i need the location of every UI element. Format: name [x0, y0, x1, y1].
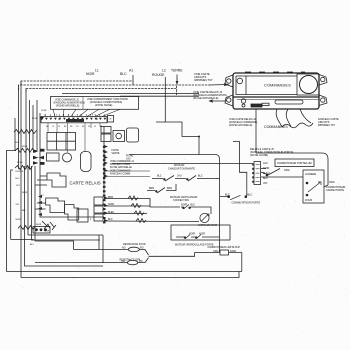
svg-text:B1: B1	[100, 126, 102, 128]
svg-text:(FICHE NATURELLE): (FICHE NATURELLE)	[193, 96, 218, 100]
svg-text:FAISCEAU COMM: FAISCEAU COMM	[110, 173, 130, 176]
svg-text:NOIR: NOIR	[108, 203, 114, 206]
svg-text:CARTE RELAIS: CARTE RELAIS	[70, 181, 101, 186]
svg-text:C3: C3	[76, 126, 78, 128]
svg-text:CADRE PORTE: CADRE PORTE	[326, 189, 344, 192]
svg-text:NOIR: NOIR	[22, 192, 28, 194]
svg-text:NOIR: NOIR	[199, 233, 205, 236]
svg-text:VIO: VIO	[263, 182, 267, 185]
svg-text:(FICHE NATURELLE): (FICHE NATURELLE)	[229, 124, 253, 127]
svg-text:COMMANDES: COMMANDES	[264, 84, 291, 88]
svg-text:BLC: BLC	[16, 178, 21, 180]
svg-text:NOIR: NOIR	[17, 162, 23, 164]
svg-text:VIO: VIO	[121, 260, 125, 263]
svg-text:IMPRIMES TST: IMPRIMES TST	[194, 78, 213, 82]
svg-text:JAU: JAU	[177, 175, 182, 178]
svg-text:NOIR: NOIR	[263, 167, 269, 170]
svg-text:L1: L1	[58, 126, 60, 128]
svg-text:BRN: BRN	[149, 187, 154, 190]
svg-text:VERTE: VERTE	[112, 152, 120, 155]
svg-text:BLC: BLC	[108, 218, 113, 221]
svg-text:BLC: BLC	[30, 244, 35, 246]
svg-text:NO: NO	[122, 247, 126, 250]
svg-text:BLC: BLC	[22, 210, 27, 212]
svg-text:BLC: BLC	[157, 175, 162, 178]
svg-text:VIO: VIO	[16, 204, 20, 206]
svg-text:NOIR: NOIR	[44, 231, 50, 233]
svg-text:BLC: BLC	[248, 194, 253, 197]
svg-text:(FICHE JAUNE): (FICHE JAUNE)	[95, 104, 112, 107]
svg-text:N2: N2	[70, 126, 72, 128]
svg-text:COMMANDES: COMMANDES	[264, 125, 288, 129]
svg-text:L2: L2	[162, 69, 166, 73]
svg-text:BLC: BLC	[198, 175, 203, 178]
svg-text:ROUGE: ROUGE	[16, 171, 24, 173]
svg-text:VIO: VIO	[16, 185, 20, 187]
svg-text:(FICHE NATURELLE): (FICHE NATURELLE)	[56, 105, 80, 108]
svg-text:COMMUTATEUR PORTE: COMMUTATEUR PORTE	[232, 201, 261, 204]
svg-text:ROUGE: ROUGE	[152, 73, 165, 77]
svg-text:N0: N0	[46, 126, 48, 128]
svg-text:BLC: BLC	[263, 177, 268, 180]
svg-text:FOUR: FOUR	[305, 199, 312, 202]
svg-text:C1: C1	[52, 126, 54, 128]
svg-text:J2: J2	[58, 119, 61, 121]
svg-text:AMPOULE FOUR: AMPOULE FOUR	[198, 224, 217, 227]
svg-text:CHALEUR TOURNANTE: CHALEUR TOURNANTE	[168, 167, 195, 170]
svg-text:L1: L1	[95, 69, 99, 73]
svg-text:A1: A1	[129, 69, 133, 73]
svg-text:JAU: JAU	[263, 162, 268, 165]
svg-text:NOIR: NOIR	[86, 72, 95, 76]
svg-text:BRN: BRN	[108, 196, 113, 199]
svg-text:RO: RO	[139, 260, 143, 263]
svg-text:NOIR: NOIR	[32, 118, 38, 120]
svg-text:CH: CH	[109, 119, 112, 121]
svg-text:BLC: BLC	[225, 194, 230, 197]
svg-text:VOIR: VOIR	[41, 110, 47, 112]
svg-text:IMPRIMES TST: IMPRIMES TST	[318, 124, 335, 127]
svg-text:ORG: ORG	[284, 169, 290, 172]
svg-text:R1: R1	[82, 126, 84, 128]
svg-text:B2: B2	[64, 126, 66, 128]
svg-text:COMMUTATEUR LIMITE SUP: COMMUTATEUR LIMITE SUP	[208, 246, 241, 249]
svg-text:(FICHE JAUNE): (FICHE JAUNE)	[250, 154, 268, 157]
svg-text:BLC: BLC	[120, 72, 127, 76]
svg-text:J1: J1	[94, 126, 96, 128]
svg-text:RO: RO	[140, 247, 144, 250]
svg-text:TERRE: TERRE	[171, 69, 183, 73]
svg-text:ORG: ORG	[213, 250, 219, 253]
svg-text:COMMUTATEUR PORTE/LUM: COMMUTATEUR PORTE/LUM	[277, 162, 312, 165]
svg-text:V2: V2	[88, 126, 90, 128]
svg-text:RESISTANCE FOUR: RESISTANCE FOUR	[123, 243, 146, 246]
svg-text:8: 8	[90, 219, 92, 221]
svg-text:BRN: BRN	[167, 187, 172, 190]
svg-text:NOIR: NOIR	[230, 250, 236, 253]
svg-text:BLC: BLC	[191, 204, 196, 207]
svg-text:NOIR: NOIR	[181, 204, 187, 207]
svg-text:NOIR: NOIR	[36, 224, 42, 226]
svg-text:NOIR: NOIR	[189, 233, 195, 236]
svg-text:NOIR: NOIR	[22, 146, 28, 148]
svg-text:LUMIERE: LUMIERE	[305, 173, 316, 176]
svg-text:NOIR: NOIR	[16, 219, 22, 221]
svg-text:BLC: BLC	[16, 142, 21, 144]
svg-text:ORG: ORG	[329, 181, 335, 184]
svg-text:BLEU: BLEU	[263, 172, 270, 175]
svg-text:L2: L2	[41, 195, 44, 197]
svg-text:J3: J3	[96, 119, 99, 121]
svg-text:BLEU: BLEU	[108, 211, 115, 214]
